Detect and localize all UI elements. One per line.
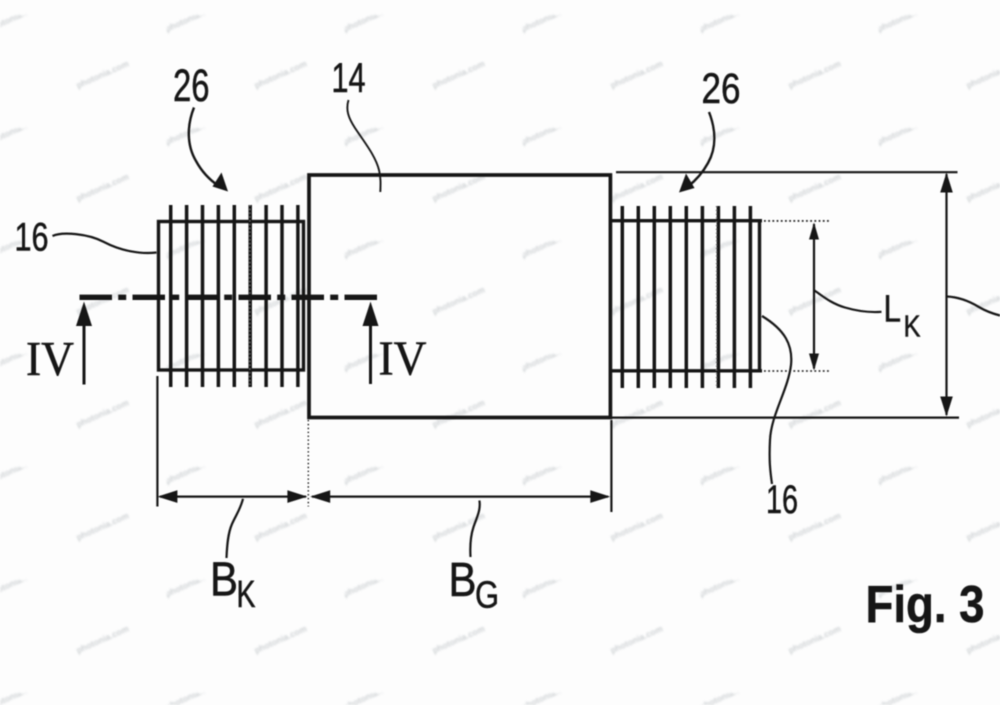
right coil dotted center split line: [716, 206, 718, 388]
leader from label 16 bottom to right coil: [762, 316, 791, 484]
svg-text:26: 26: [702, 65, 741, 113]
arrowhead L_K top: [809, 223, 819, 240]
curved arrow from label 26 right: [688, 112, 714, 187]
leader from label 14 into body: [347, 100, 380, 192]
arrowhead of 26 right leader: [679, 174, 695, 193]
leader from label 16 top-left to coil: [53, 234, 157, 253]
svg-text:B: B: [210, 554, 238, 607]
svg-text:K: K: [904, 309, 921, 344]
dimension line B_G: [312, 496, 608, 498]
curved arrow from label 26 left: [189, 108, 218, 186]
dotted extension line top of L_K: [764, 220, 829, 222]
dimension line B_K: [160, 496, 306, 498]
inner vertical dimension line L_K: [813, 224, 815, 369]
leader squiggle B_K: [227, 499, 244, 558]
svg-text:K: K: [237, 574, 256, 616]
svg-text:16: 16: [766, 478, 798, 522]
arrowhead outer dimension bottom: [940, 397, 953, 417]
svg-text:Fig. 3: Fig. 3: [866, 576, 985, 634]
svg-text:G: G: [475, 575, 499, 617]
svg-text:B: B: [449, 554, 477, 607]
left coil block outline 26: [159, 222, 304, 371]
svg-text:14: 14: [332, 54, 366, 101]
gear body 14 (central rectangle): [309, 175, 610, 418]
arrowhead B_G right: [590, 490, 610, 503]
left coil lamination bars: [171, 205, 298, 387]
right coil lamination bars: [622, 206, 750, 388]
leader from L_K label to inner dimension: [815, 291, 882, 313]
dotted extension line bottom of L_K: [764, 370, 829, 372]
section arrow IV right: [369, 322, 372, 384]
svg-text:L: L: [884, 289, 902, 331]
section arrow IV left: [83, 322, 86, 385]
arrowhead B_K left: [157, 490, 177, 503]
svg-text:IV: IV: [26, 331, 74, 386]
arrowhead outer dimension top: [940, 173, 953, 193]
bottom extension line for L dimension: [611, 417, 959, 419]
extension line right of B_G: [610, 420, 612, 512]
right coil block outline 26: [611, 221, 762, 371]
svg-text:16: 16: [15, 216, 49, 260]
svg-text:26: 26: [173, 60, 210, 111]
leader from outer dimension to right edge: [947, 297, 1000, 316]
left coil dotted center split line: [249, 205, 251, 387]
dash-dot axis centerline: [80, 295, 378, 300]
arrowhead B_K right: [287, 490, 307, 503]
arrowhead L_K bottom: [809, 354, 819, 371]
dotted extension line between B_K and B_G: [307, 420, 309, 507]
outer vertical dimension line (overall length): [945, 174, 947, 415]
extension line left of B_K: [156, 376, 158, 507]
arrowhead B_G left: [310, 490, 330, 503]
svg-text:IV: IV: [379, 331, 427, 386]
leader squiggle B_G: [470, 501, 479, 558]
arrowhead of 26 left leader: [213, 173, 229, 192]
top extension line for L dimension: [616, 171, 958, 173]
